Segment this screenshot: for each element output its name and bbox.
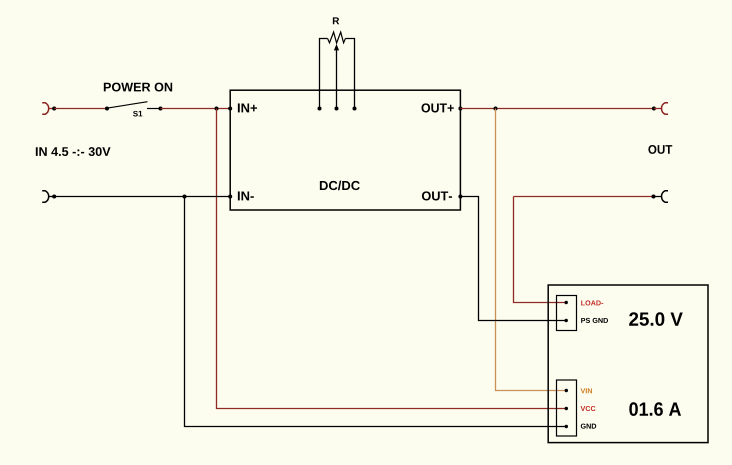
label OUT [648,145,672,154]
wire: VCC sense drop (red) [217,109,567,409]
trim potentiometer R: wiper arrowhead [334,44,339,50]
meter upper connector block [557,296,577,331]
output connector J3 positive (red arc, opens right) [662,103,668,115]
wire: input- to IN- pin (black) [54,196,230,198]
trim potentiometer R: zigzag body [328,32,346,43]
switch S1 right contact stub [147,108,161,110]
label IN+ [238,103,257,112]
wire: LOAD- drop (red) [514,197,567,303]
trim potentiometer R: wiper line [336,48,338,109]
label POWER ON [104,83,172,92]
label VCC [581,406,596,411]
pin OUT- dot [458,195,462,199]
label VIN [581,388,592,393]
pin IN- dot [228,195,232,199]
node: output - terminal dot [652,195,656,199]
switch S1 blade [108,102,148,108]
trim potentiometer R: right lead [345,39,354,109]
pin PS GND dot [565,319,568,322]
node: pot left pin dot [318,107,322,111]
panel meter box M1 [548,285,708,443]
pin OUT+ dot [458,107,462,111]
wire: switch to IN+ pin (red) [161,108,231,110]
pin VIN dot [565,389,568,392]
meter current readout 01.6 A [629,402,681,416]
pin GND dot [565,425,568,428]
label PS GND [581,318,608,323]
DC/DC converter box U1 [230,90,460,210]
node: VCC tap junction dot on IN+ wire [215,107,219,111]
wire: stub from J1 arc to terminal (red) [48,108,54,110]
wire: stub from J2 arc to terminal (black) [48,196,54,198]
wire: VIN sense drop (orange) [496,109,567,391]
wire: output- rail to connector (red) [514,196,654,198]
wire: stub to output+ connector arc (red) [654,108,662,110]
wire: GND drop to meter (black) [185,197,567,427]
wire: stub to output- connector arc (black) [654,196,662,198]
pin LOAD- dot [565,301,568,304]
meter lower connector block [557,380,577,436]
node: input - terminal dot [52,195,56,199]
label LOAD- [581,300,603,305]
input connector J2 negative (black arc) [42,191,48,203]
trim potentiometer R: left lead [320,39,328,109]
node: input + terminal dot [52,107,56,111]
pin IN+ dot [228,107,232,111]
node: pot right pin dot [353,107,357,111]
wire: OUT- jog to PS GND (black) [460,197,566,321]
pin VCC dot [565,407,568,410]
label S1 [133,111,142,117]
wire: input+ to switch S1 (red) [54,108,107,110]
label R [333,17,339,24]
label OUT+ [422,103,454,112]
label GND [581,424,596,429]
node: output + terminal dot [652,107,656,111]
label OUT- [422,191,452,200]
label IN- [238,191,254,200]
meter voltage readout 25.0 V [629,312,683,326]
node: GND tap junction dot on IN- wire [183,195,187,199]
label IN 4.5 -:- 30V [36,147,111,156]
node: pot wiper pin dot [335,107,339,111]
label DC/DC [320,181,360,191]
input connector J1 positive (red arc) [42,103,48,115]
node: switch S1 right terminal dot [159,107,163,111]
node: VIN tap junction dot on OUT+ wire [494,107,498,111]
output connector J4 negative (black arc, opens right) [662,191,668,203]
node: switch S1 left terminal dot [105,107,109,111]
wire: OUT+ to output connector (red) [460,108,654,110]
